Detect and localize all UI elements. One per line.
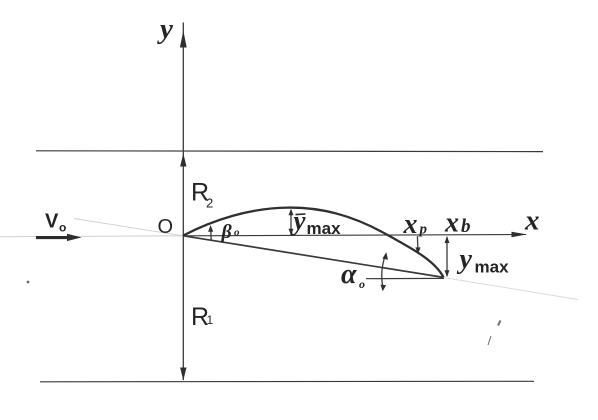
- svg-text:V: V: [45, 211, 59, 233]
- svg-text:o: o: [359, 277, 365, 291]
- svg-text:y: y: [291, 206, 307, 236]
- svg-text:β: β: [221, 221, 233, 243]
- svg-text:1: 1: [207, 313, 214, 327]
- svg-text:2: 2: [206, 196, 213, 211]
- svg-text:b: b: [461, 216, 471, 237]
- svg-text:x: x: [524, 205, 540, 237]
- svg-text:p: p: [418, 222, 428, 238]
- svg-text:o: o: [234, 227, 240, 239]
- svg-text:O: O: [158, 216, 174, 238]
- svg-text:max: max: [307, 219, 342, 238]
- svg-text:y: y: [457, 244, 473, 275]
- svg-text:o: o: [59, 221, 66, 235]
- svg-text:x: x: [403, 209, 418, 240]
- svg-text:max: max: [475, 258, 510, 277]
- svg-text:x: x: [444, 208, 459, 239]
- svg-text:y: y: [157, 13, 173, 45]
- svg-text:α: α: [341, 259, 357, 290]
